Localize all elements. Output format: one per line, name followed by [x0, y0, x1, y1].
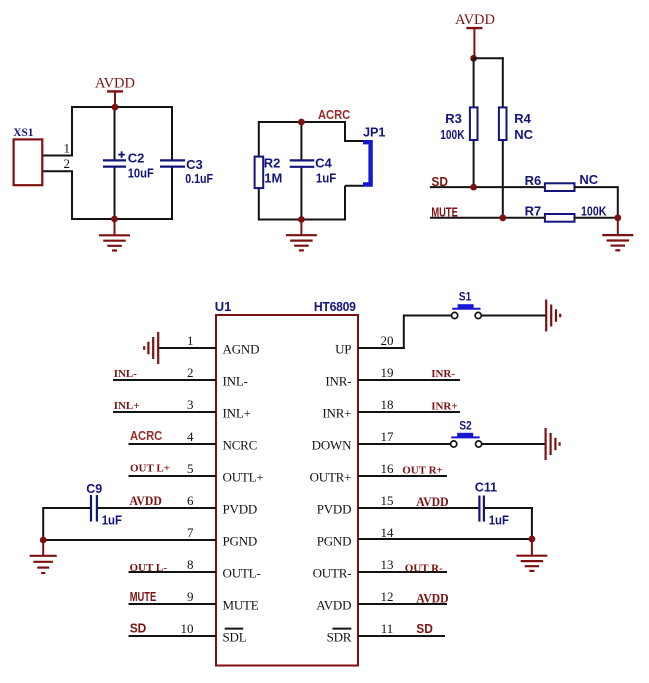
- svg-text:SD: SD: [130, 621, 147, 636]
- svg-text:100K: 100K: [440, 128, 465, 142]
- svg-text:PGND: PGND: [223, 533, 258, 548]
- svg-text:2: 2: [64, 156, 71, 171]
- svg-text:XS1: XS1: [13, 126, 33, 139]
- svg-text:INL+: INL+: [223, 405, 251, 420]
- svg-text:7: 7: [187, 525, 194, 540]
- svg-text:JP1: JP1: [363, 125, 385, 139]
- svg-text:14: 14: [381, 525, 395, 540]
- svg-text:1M: 1M: [264, 171, 282, 186]
- svg-text:16: 16: [381, 461, 395, 476]
- svg-text:UP: UP: [335, 341, 351, 356]
- svg-text:NC: NC: [514, 127, 533, 142]
- svg-text:S2: S2: [459, 420, 471, 433]
- svg-text:HT6809: HT6809: [314, 300, 356, 314]
- svg-text:1uF: 1uF: [102, 513, 123, 528]
- svg-text:1: 1: [64, 141, 71, 156]
- svg-text:R2: R2: [264, 155, 281, 170]
- svg-text:C4: C4: [315, 155, 332, 170]
- svg-text:SD: SD: [416, 622, 433, 637]
- svg-text:NC: NC: [579, 172, 598, 187]
- svg-text:15: 15: [381, 493, 394, 508]
- svg-text:PVDD: PVDD: [317, 501, 352, 516]
- svg-text:ACRC: ACRC: [318, 107, 350, 122]
- svg-text:10: 10: [181, 621, 194, 636]
- svg-text:OUT R-: OUT R-: [405, 562, 443, 574]
- svg-text:AGND: AGND: [223, 341, 260, 356]
- svg-text:INL+: INL+: [114, 400, 140, 412]
- svg-text:3: 3: [187, 397, 194, 412]
- svg-text:U1: U1: [215, 299, 232, 314]
- svg-text:AVDD: AVDD: [455, 12, 495, 28]
- svg-text:9: 9: [187, 589, 194, 604]
- svg-text:5: 5: [187, 461, 194, 476]
- svg-text:OUT L-: OUT L-: [130, 562, 168, 574]
- svg-text:INL-: INL-: [223, 373, 248, 388]
- svg-text:4: 4: [187, 429, 194, 444]
- svg-text:C2: C2: [128, 150, 145, 165]
- svg-text:OUTR-: OUTR-: [313, 565, 352, 580]
- svg-text:R6: R6: [525, 173, 542, 188]
- svg-text:SDR: SDR: [327, 629, 352, 644]
- svg-text:100K: 100K: [581, 204, 607, 219]
- svg-text:17: 17: [381, 429, 395, 444]
- svg-text:OUTL-: OUTL-: [223, 565, 261, 580]
- svg-text:AVDD: AVDD: [95, 76, 135, 92]
- svg-text:12: 12: [381, 589, 394, 604]
- svg-text:AVDD: AVDD: [316, 597, 351, 612]
- svg-text:1uF: 1uF: [316, 171, 337, 186]
- svg-text:13: 13: [381, 557, 394, 572]
- svg-text:11: 11: [381, 621, 394, 636]
- svg-text:INL-: INL-: [114, 368, 138, 380]
- svg-text:SDL: SDL: [223, 629, 247, 644]
- svg-text:INR-: INR-: [325, 373, 351, 388]
- svg-text:8: 8: [187, 557, 194, 572]
- svg-text:C9: C9: [86, 482, 102, 496]
- svg-text:DOWN: DOWN: [312, 437, 352, 452]
- svg-text:AVDD: AVDD: [416, 591, 448, 606]
- svg-text:C11: C11: [475, 481, 497, 495]
- svg-text:6: 6: [187, 493, 194, 508]
- svg-text:PVDD: PVDD: [223, 501, 258, 516]
- svg-text:0.1uF: 0.1uF: [185, 171, 213, 186]
- svg-text:AVDD: AVDD: [130, 494, 162, 509]
- svg-text:MUTE: MUTE: [130, 591, 157, 605]
- svg-text:19: 19: [381, 365, 394, 380]
- svg-text:OUT L+: OUT L+: [130, 463, 170, 475]
- svg-text:ACRC: ACRC: [130, 428, 162, 443]
- svg-text:1: 1: [187, 333, 194, 348]
- svg-text:PGND: PGND: [317, 533, 352, 548]
- svg-text:R4: R4: [514, 111, 531, 126]
- svg-text:R7: R7: [525, 204, 542, 219]
- svg-text:NCRC: NCRC: [223, 437, 258, 452]
- svg-text:OUT R+: OUT R+: [402, 464, 443, 476]
- svg-text:INR+: INR+: [322, 405, 351, 420]
- svg-text:20: 20: [381, 333, 394, 348]
- svg-text:OUTL+: OUTL+: [223, 469, 264, 484]
- svg-text:2: 2: [187, 365, 194, 380]
- svg-text:MUTE: MUTE: [223, 597, 259, 612]
- svg-text:S1: S1: [459, 291, 471, 304]
- svg-text:INR-: INR-: [431, 368, 455, 380]
- svg-text:10uF: 10uF: [128, 166, 154, 181]
- svg-text:18: 18: [381, 397, 394, 412]
- svg-text:INR+: INR+: [431, 401, 457, 413]
- svg-text:OUTR+: OUTR+: [310, 469, 352, 484]
- svg-text:1uF: 1uF: [489, 513, 510, 528]
- svg-text:C3: C3: [186, 157, 203, 172]
- svg-text:AVDD: AVDD: [416, 494, 448, 509]
- svg-text:R3: R3: [445, 111, 462, 126]
